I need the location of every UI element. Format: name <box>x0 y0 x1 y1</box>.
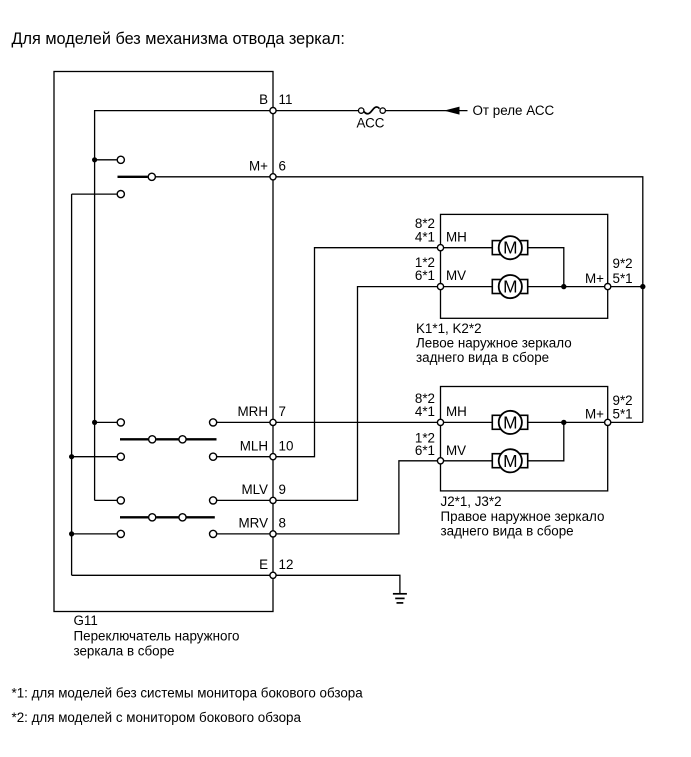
svg-text:Переключатель наружного: Переключатель наружного <box>74 629 240 644</box>
wire right mirror M+ to feed <box>611 421 643 423</box>
svg-text:M: M <box>503 238 517 258</box>
left mirror pin M+ <box>605 284 611 290</box>
svg-text:9*2: 9*2 <box>613 256 633 271</box>
svg-text:MLV: MLV <box>241 482 268 497</box>
left mirror box K1/K2 <box>441 214 608 318</box>
left mirror motor MV wires <box>444 286 493 288</box>
left mirror pin MH <box>437 245 443 251</box>
svg-text:5*1: 5*1 <box>613 271 633 286</box>
svg-text:*2: для моделей с монитором бо: *2: для моделей с монитором бокового обз… <box>12 710 302 725</box>
switch S2 MLH row <box>69 453 273 460</box>
pin M+ 6 <box>270 174 276 180</box>
wire MLV to left mirror MV <box>276 287 437 501</box>
switch S3 MRV row <box>69 530 273 537</box>
switch S1 arm <box>118 173 274 180</box>
left mirror label <box>416 321 572 365</box>
svg-text:M: M <box>503 277 517 297</box>
svg-text:MH: MH <box>446 229 467 244</box>
right mirror motor M (MH) <box>492 411 527 434</box>
left mirror motor MH wires <box>444 247 493 249</box>
svg-text:6: 6 <box>279 159 286 174</box>
svg-text:M: M <box>503 451 517 471</box>
switch S2 arm <box>120 436 217 443</box>
svg-text:заднего вида в сборе: заднего вида в сборе <box>441 524 574 539</box>
right mirror pin MH <box>437 419 443 425</box>
svg-text:MRV: MRV <box>238 516 268 531</box>
svg-text:8: 8 <box>279 516 286 531</box>
svg-text:G11: G11 <box>74 613 98 628</box>
wire M+ feed to mirrors <box>276 177 643 423</box>
switch S3 MLV row <box>95 497 273 504</box>
right mirror box J2/J3 <box>441 387 608 491</box>
pin MLH 10 <box>270 454 276 460</box>
svg-text:9: 9 <box>279 482 286 497</box>
right mirror motor MV wires <box>444 460 493 462</box>
svg-text:Для моделей без механизма отво: Для моделей без механизма отвода зеркал: <box>12 30 345 48</box>
arrow from ACC relay <box>444 107 460 115</box>
svg-text:6*1: 6*1 <box>415 268 435 283</box>
switch S2 MRH row <box>92 419 273 426</box>
svg-text:От реле АСС: От реле АСС <box>473 103 555 118</box>
left mirror motor M (MH) <box>492 236 527 259</box>
wire E row <box>72 574 273 576</box>
right mirror motor M (MV) <box>492 449 527 472</box>
svg-text:12: 12 <box>279 557 294 572</box>
wire fuse to arrow <box>385 110 467 112</box>
svg-text:Левое наружное зеркало: Левое наружное зеркало <box>416 336 572 351</box>
svg-text:MRH: MRH <box>238 404 269 419</box>
G11 label <box>74 613 240 658</box>
wire MRH to right mirror MH <box>276 421 437 423</box>
left mirror pin MV <box>437 284 443 290</box>
svg-text:J2*1, J3*2: J2*1, J3*2 <box>441 494 502 509</box>
junction right mirror <box>561 420 566 425</box>
right mirror label <box>441 494 605 539</box>
wire B row inside box <box>95 111 273 501</box>
svg-text:M+: M+ <box>585 406 604 421</box>
wire left mirror M+ to feed <box>611 286 643 288</box>
svg-text:4*1: 4*1 <box>415 229 435 244</box>
wire MRV to right mirror MV <box>276 461 437 534</box>
svg-text:M: M <box>503 412 517 432</box>
pin E 12 <box>270 572 276 578</box>
junction left mirror <box>561 284 566 289</box>
wire left vertical bus <box>71 194 73 575</box>
pin MLV 9 <box>270 497 276 503</box>
fuse ACC <box>357 107 386 131</box>
svg-text:Правое наружное зеркало: Правое наружное зеркало <box>441 509 605 524</box>
svg-text:4*1: 4*1 <box>415 404 435 419</box>
pin MRH 7 <box>270 419 276 425</box>
svg-text:E: E <box>259 557 268 572</box>
switch G11 box <box>54 72 273 612</box>
svg-text:*1: для моделей без системы мо: *1: для моделей без системы монитора бок… <box>12 686 364 701</box>
wire E to ground <box>276 575 400 593</box>
pin B 11 <box>270 108 276 114</box>
right mirror pin MV <box>437 458 443 464</box>
svg-text:K1*1, K2*2: K1*1, K2*2 <box>416 321 482 336</box>
svg-text:заднего вида в сборе: заднего вида в сборе <box>416 350 549 365</box>
wire MLH to left mirror MH <box>276 248 437 457</box>
svg-text:11: 11 <box>279 92 293 107</box>
svg-text:MV: MV <box>446 268 466 283</box>
right mirror motor MH wires <box>444 421 493 423</box>
svg-text:10: 10 <box>279 439 294 454</box>
left mirror motor M (MV) <box>492 275 527 298</box>
switch S1 contact row 3 <box>72 191 125 198</box>
svg-text:MLH: MLH <box>240 439 268 454</box>
svg-text:АСС: АСС <box>357 116 385 131</box>
svg-text:M+: M+ <box>249 159 268 174</box>
svg-text:7: 7 <box>279 404 286 419</box>
right mirror pin M+ <box>605 419 611 425</box>
switch S3 arm <box>120 514 215 521</box>
svg-text:MH: MH <box>446 404 467 419</box>
switch S1 contact row 1 <box>92 156 124 163</box>
svg-text:6*1: 6*1 <box>415 443 435 458</box>
pin MRV 8 <box>270 531 276 537</box>
svg-text:M+: M+ <box>585 271 604 286</box>
svg-text:B: B <box>259 92 268 107</box>
ground <box>393 594 407 603</box>
svg-text:зеркала в сборе: зеркала в сборе <box>74 643 175 658</box>
wire B to fuse <box>273 110 359 112</box>
junction M+ feed <box>640 284 645 289</box>
svg-text:MV: MV <box>446 443 466 458</box>
svg-text:5*1: 5*1 <box>613 406 633 421</box>
